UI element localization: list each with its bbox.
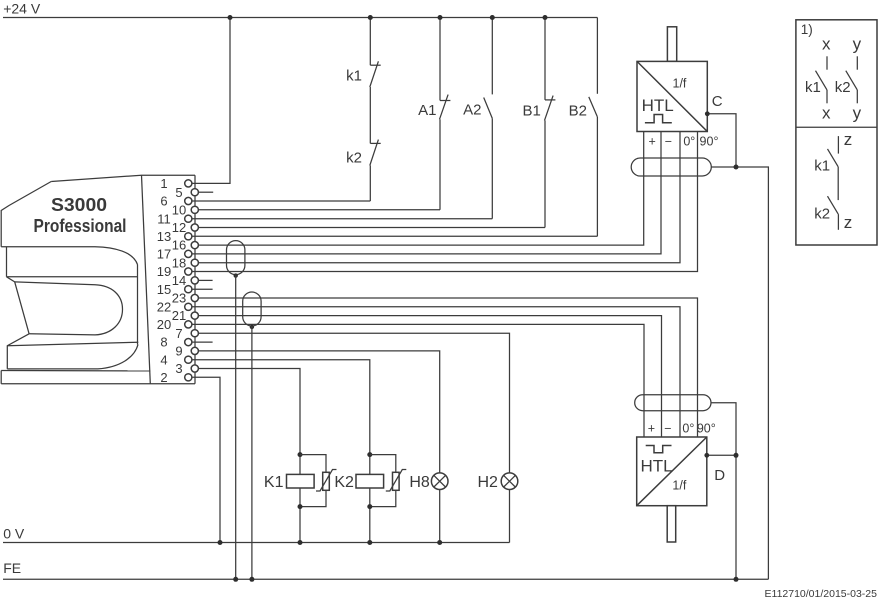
pin 23 — [172, 291, 199, 306]
svg-text:0°: 0° — [683, 134, 695, 148]
svg-text:17: 17 — [157, 247, 171, 262]
wire D shield drain to FE — [711, 403, 736, 580]
pin 5 — [175, 185, 198, 200]
node pin2/0V junction — [218, 540, 223, 545]
wire pin21 to encoder D - — [198, 316, 661, 437]
pin 14 — [172, 273, 199, 288]
svg-text:1/f: 1/f — [672, 479, 686, 493]
svg-text:x: x — [822, 104, 831, 123]
svg-text:E112710/01/2015-03-25: E112710/01/2015-03-25 — [765, 588, 878, 600]
svg-text:HTL: HTL — [642, 96, 674, 115]
wire pin7 to lamp H2 — [198, 333, 509, 542]
encoder C terminal labels — [649, 134, 719, 148]
wire pin18 to encoder C 0deg — [198, 132, 680, 263]
contact k2 (NC) — [370, 140, 381, 201]
S3000 Professional label — [34, 194, 127, 236]
pin 17 — [157, 247, 192, 262]
shield oval encoder D — [635, 395, 711, 411]
svg-text:23: 23 — [172, 291, 186, 306]
wire D output — [707, 454, 736, 456]
svg-text:1): 1) — [801, 22, 813, 37]
pin 4 — [160, 352, 192, 367]
wire pin22 to encoder D 0deg — [192, 307, 681, 437]
pin 10 — [172, 202, 199, 217]
legend contact k1 (x) — [805, 35, 831, 123]
svg-text:9: 9 — [175, 344, 182, 359]
pin 16 — [172, 238, 199, 253]
svg-text:20: 20 — [157, 317, 171, 332]
svg-text:5: 5 — [175, 185, 182, 200]
svg-text:−: − — [665, 134, 672, 148]
S3000 scanner body outline — [1, 175, 195, 384]
node C drain junction — [734, 165, 739, 170]
svg-text:13: 13 — [157, 229, 171, 244]
svg-text:K1: K1 — [264, 474, 284, 491]
svg-text:1: 1 — [160, 176, 167, 191]
svg-text:FE: FE — [3, 560, 21, 576]
relay K1 coil with suppressor — [264, 452, 337, 545]
legend contact k2 (y) — [835, 35, 862, 123]
svg-text:0°: 0° — [682, 421, 694, 435]
svg-text:Professional: Professional — [34, 215, 127, 236]
wire pin9 to lamp H8 — [198, 351, 439, 543]
svg-text:+: + — [649, 134, 656, 148]
svg-text:18: 18 — [172, 255, 186, 270]
wire pin20 to encoder D + — [192, 324, 645, 437]
wire pin11 to A2 — [192, 218, 493, 220]
wire pin14 stub — [198, 279, 212, 281]
svg-text:D: D — [714, 467, 725, 484]
svg-text:B2: B2 — [569, 102, 587, 119]
pin 12 — [172, 220, 199, 235]
wire pin13 to B2 — [192, 235, 598, 237]
encoder C (HTL incremental encoder 1/f) — [637, 27, 707, 132]
svg-text:k2: k2 — [346, 150, 362, 167]
svg-text:8: 8 — [160, 335, 167, 350]
svg-text:19: 19 — [157, 264, 171, 279]
svg-text:15: 15 — [157, 282, 171, 297]
node k1/+24V junction — [368, 15, 373, 20]
svg-text:11: 11 — [157, 211, 171, 226]
wire k1 to k2 — [369, 87, 371, 143]
svg-text:16: 16 — [172, 238, 186, 253]
shield oval encoder C — [631, 158, 711, 176]
pin 3 — [175, 361, 198, 376]
svg-text:y: y — [853, 104, 862, 123]
node shield1/FE junction — [233, 577, 238, 582]
node D drain/FE junction — [734, 577, 739, 582]
wire pin23 to encoder D 90deg — [198, 298, 697, 437]
pin 19 — [157, 264, 192, 279]
svg-text:1/f: 1/f — [673, 77, 687, 91]
pin 9 — [175, 344, 198, 359]
shielded cable oval 2 (encoder D pair) — [243, 292, 261, 326]
wire pin8 stub — [192, 341, 213, 343]
svg-text:3: 3 — [175, 361, 182, 376]
pin 7 — [175, 326, 198, 341]
node A1/+24V junction — [438, 15, 443, 20]
pin 21 — [172, 308, 199, 323]
wire pin19 to encoder C 90deg — [192, 132, 698, 272]
svg-text:B1: B1 — [523, 102, 541, 119]
svg-text:2: 2 — [160, 370, 167, 385]
contact A2 (NO) — [484, 18, 493, 219]
wire pin3 to relay K1 — [198, 369, 300, 543]
0 V rail — [3, 526, 510, 543]
relay K2 coil with suppressor — [334, 452, 406, 545]
wire shield 1 drain to FE — [235, 275, 237, 580]
svg-text:12: 12 — [172, 220, 186, 235]
pin 6 — [160, 194, 192, 209]
contact k1 (NC) — [370, 18, 381, 88]
contact B1 (NC) — [545, 18, 556, 228]
contact B2 (NO) — [589, 18, 598, 237]
svg-text:22: 22 — [157, 299, 171, 314]
wire C shield drain to FE — [711, 167, 768, 579]
wire pin15 stub — [192, 288, 213, 290]
wire C output — [707, 114, 736, 167]
pin 18 — [172, 255, 199, 270]
+24 V supply rail — [3, 1, 597, 18]
wire pin12 to B1 — [198, 227, 545, 229]
wire pin5 stub — [198, 191, 213, 193]
svg-text:14: 14 — [172, 273, 186, 288]
node pin1/+24V junction — [228, 15, 233, 20]
svg-text:A1: A1 — [418, 102, 436, 119]
svg-text:HTL: HTL — [641, 457, 673, 476]
svg-text:H2: H2 — [477, 474, 498, 491]
svg-text:S3000: S3000 — [51, 194, 107, 215]
svg-text:6: 6 — [160, 194, 167, 209]
svg-text:x: x — [822, 35, 831, 54]
wire pin2 to 0V — [192, 377, 221, 542]
svg-text:0 V: 0 V — [3, 526, 25, 542]
node C output — [705, 111, 710, 116]
svg-text:21: 21 — [172, 308, 186, 323]
svg-text:k2: k2 — [835, 79, 851, 96]
svg-text:−: − — [664, 421, 671, 435]
svg-text:90°: 90° — [697, 421, 716, 435]
wire pin10 to A1 — [192, 209, 441, 211]
svg-text:z: z — [844, 213, 853, 232]
wire shield 2 drain to FE — [251, 326, 253, 579]
pin 2 — [160, 370, 192, 385]
svg-text:k1: k1 — [346, 67, 362, 84]
legend separator — [796, 126, 877, 128]
svg-text:k2: k2 — [814, 205, 830, 222]
svg-text:k1: k1 — [805, 79, 821, 96]
pin 15 — [157, 282, 192, 297]
contact A1 (NC) — [440, 18, 451, 210]
svg-text:4: 4 — [160, 352, 167, 367]
svg-text:+: + — [648, 421, 655, 435]
wire pin4 to relay K2 — [192, 360, 370, 543]
svg-text:10: 10 — [172, 202, 186, 217]
pin 1 — [160, 176, 192, 191]
lamp H8 — [409, 473, 448, 545]
svg-text:7: 7 — [175, 326, 182, 341]
wire pin6 to k2 contact — [192, 200, 371, 202]
svg-text:C: C — [712, 93, 723, 110]
wire pin17 to encoder C - — [192, 132, 662, 254]
legend box 1) — [796, 20, 877, 245]
pin 13 — [157, 229, 192, 244]
node D output/drain junction — [734, 453, 739, 458]
node B1/+24V junction — [543, 15, 548, 20]
svg-text:90°: 90° — [700, 134, 719, 148]
svg-text:K2: K2 — [334, 474, 354, 491]
FE (functional earth) rail — [3, 560, 768, 579]
svg-text:A2: A2 — [463, 101, 481, 118]
pin 8 — [160, 335, 192, 350]
svg-text:H8: H8 — [409, 474, 430, 491]
node shield2/FE junction — [249, 577, 254, 582]
node A2/+24V junction — [490, 15, 495, 20]
svg-text:z: z — [844, 130, 853, 149]
pin 11 — [157, 211, 192, 226]
node D output — [704, 453, 709, 458]
encoder D terminal labels — [648, 421, 716, 435]
wire pin1 to +24V rail — [192, 18, 231, 184]
lamp H2 — [477, 473, 517, 491]
pin 20 — [157, 317, 192, 332]
node shield 2 drain — [250, 325, 254, 329]
wire pin16 to encoder C + — [198, 132, 643, 246]
svg-text:+24 V: +24 V — [3, 1, 41, 17]
shielded cable oval 1 (encoder C pair) — [227, 241, 245, 275]
legend series contacts k1 k2 (z) — [814, 130, 852, 232]
node shield 1 drain — [234, 273, 238, 277]
svg-text:k1: k1 — [814, 157, 830, 174]
pin 22 — [157, 299, 192, 314]
svg-text:y: y — [853, 35, 862, 54]
